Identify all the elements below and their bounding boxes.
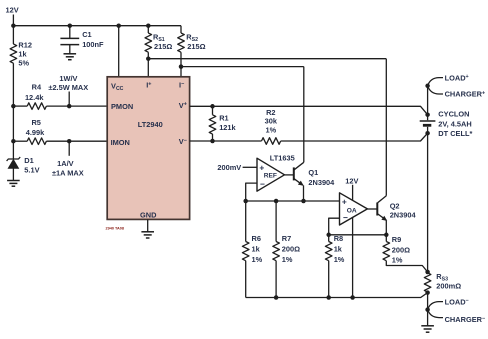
- svg-text:R9: R9: [392, 235, 401, 244]
- svg-text:LT1635: LT1635: [270, 153, 295, 162]
- svg-text:12.4k: 12.4k: [25, 93, 44, 102]
- wire vertical to Q2 collector: [385, 59, 387, 196]
- junction left rail / R4: [11, 104, 16, 109]
- svg-text:1%: 1%: [392, 255, 403, 264]
- label 2940 TA08: [106, 227, 125, 231]
- svg-text:12V: 12V: [345, 176, 358, 185]
- svg-text:121k: 121k: [219, 123, 236, 132]
- svg-text:±2.5W MAX: ±2.5W MAX: [48, 83, 88, 92]
- annotation 1W/V ±2.5W MAX with pointer: [48, 74, 88, 106]
- svg-text:2N3904: 2N3904: [390, 211, 417, 220]
- svg-text:4.99k: 4.99k: [26, 128, 45, 137]
- svg-text:LT2940: LT2940: [138, 120, 163, 129]
- junction battery plus: [425, 112, 430, 117]
- resistor RS3 200m ohm: [424, 272, 461, 293]
- svg-text:+: +: [342, 196, 347, 206]
- annotation 1A/V ±1A MAX with pointer: [52, 141, 84, 177]
- resistor R6 1k: [242, 201, 262, 298]
- junction RS2 bottom / I-: [179, 64, 184, 69]
- svg-text:5%: 5%: [18, 58, 29, 67]
- ground under GND pin: [141, 232, 154, 238]
- wire vertical to Q1 collector: [303, 67, 305, 163]
- svg-text:1W/V: 1W/V: [59, 74, 77, 83]
- svg-text:Q1: Q1: [308, 168, 318, 177]
- resistor R8 1k: [325, 234, 344, 298]
- svg-text:REF: REF: [264, 173, 277, 180]
- wire RS2 node to Q1 collector drop: [181, 66, 304, 68]
- wire OA- input to R8 node: [329, 218, 340, 235]
- resistor R7 200 ohm: [273, 201, 300, 298]
- node 12V supply label: [6, 5, 19, 14]
- svg-text:C1: C1: [82, 30, 91, 39]
- wire REF output to Q1 base: [285, 174, 294, 176]
- wire GND pin: [147, 219, 149, 231]
- ground bottom right: [421, 326, 434, 332]
- junction node A Q1 emitter: [301, 199, 306, 204]
- wire bottom bus: [246, 293, 428, 298]
- wire hooks to ground: [427, 310, 429, 326]
- junction R8 top: [326, 233, 331, 238]
- junction bus R7: [274, 295, 279, 300]
- svg-text:DT CELL*: DT CELL*: [438, 129, 472, 138]
- svg-text:−: −: [260, 179, 265, 189]
- svg-text:200Ω: 200Ω: [392, 245, 410, 254]
- wire V- pin segment to R2: [190, 140, 262, 142]
- wire battery minus down to RS3: [427, 133, 429, 272]
- svg-text:R4: R4: [32, 83, 42, 92]
- wire VCC pin from rail: [118, 26, 120, 77]
- wire OA negative supply to bottom bus: [352, 217, 354, 298]
- svg-text:1%: 1%: [265, 125, 276, 134]
- svg-text:OA: OA: [347, 208, 357, 215]
- wire hook junction to battery: [427, 86, 429, 115]
- svg-text:5.1V: 5.1V: [24, 165, 39, 174]
- wire left branch R5 to D1: [12, 141, 14, 159]
- op-amp U2 LT1635 REF: [257, 153, 295, 191]
- wire R12 to R4 node: [12, 63, 14, 106]
- wire 12V lead down to rail: [12, 15, 14, 26]
- svg-text:R7: R7: [282, 234, 291, 243]
- wire RS3 bottom to hooks: [427, 293, 429, 310]
- node 12V supply for OA: [345, 176, 358, 200]
- op-amp U3 OA: [340, 193, 368, 225]
- svg-text:2940 TA08: 2940 TA08: [106, 227, 125, 231]
- resistor R1 121k: [209, 106, 236, 141]
- junction RS1 bottom / I+: [146, 56, 151, 61]
- junction hooks bottom: [425, 307, 430, 312]
- junction node A REF/R6: [243, 199, 248, 204]
- svg-text:1k: 1k: [18, 49, 27, 58]
- junction bus R8: [326, 295, 331, 300]
- junction hooks top: [425, 84, 430, 89]
- svg-text:R5: R5: [31, 118, 40, 127]
- svg-text:±1A MAX: ±1A MAX: [52, 169, 84, 178]
- junction V- / R1: [210, 139, 215, 144]
- junction left rail / R5: [11, 139, 16, 144]
- resistor R12: [10, 41, 32, 68]
- ground under D1: [7, 181, 20, 187]
- svg-text:2N3904: 2N3904: [308, 178, 335, 187]
- svg-text:R6: R6: [252, 234, 261, 243]
- resistor R5 4.99k: [13, 118, 107, 145]
- wire Q1 emitter to node A: [303, 185, 305, 201]
- wire R8 node to R9 node: [329, 234, 387, 236]
- svg-text:215Ω: 215Ω: [187, 42, 205, 51]
- zener D1 5.1V: [7, 156, 40, 180]
- svg-text:1A/V: 1A/V: [57, 159, 74, 168]
- junction node A R7: [274, 199, 279, 204]
- svg-text:1k: 1k: [334, 245, 343, 254]
- transistor Q2 2N3904: [377, 196, 416, 221]
- svg-text:CHARGER+: CHARGER+: [445, 90, 486, 99]
- junction RS3 top: [425, 270, 430, 275]
- junction V+ / R1: [210, 104, 215, 109]
- battery CYCLON cell: [420, 110, 473, 139]
- svg-text:Q2: Q2: [390, 201, 400, 210]
- capacitor C1: [60, 26, 104, 54]
- svg-text:12V: 12V: [6, 5, 19, 14]
- source 200mV reference lead: [217, 163, 257, 172]
- junction RS3 bottom: [425, 290, 430, 295]
- svg-text:R1: R1: [219, 113, 228, 122]
- wire left branch R4 to R5: [12, 106, 14, 141]
- svg-text:R12: R12: [18, 41, 32, 50]
- svg-text:1k: 1k: [252, 245, 261, 254]
- junction rail-left: [11, 23, 16, 28]
- resistor R2 30k in series: [262, 108, 281, 144]
- transistor Q1 2N3904: [294, 162, 335, 187]
- wire REF- input to node A: [246, 183, 257, 199]
- svg-text:LOAD+: LOAD+: [445, 73, 469, 82]
- svg-text:CHARGER−: CHARGER−: [445, 315, 486, 324]
- svg-text:D1: D1: [24, 156, 33, 165]
- svg-text:1%: 1%: [282, 255, 293, 264]
- svg-text:R2: R2: [266, 108, 275, 117]
- junction R4 / PMON annotation: [67, 104, 72, 109]
- connector hooks LOAD- / CHARGER-: [428, 297, 486, 324]
- resistor R9 200 ohm: [383, 235, 428, 272]
- ground under C1: [64, 54, 77, 60]
- svg-text:30k: 30k: [265, 117, 278, 126]
- junction rail-C1: [68, 23, 73, 28]
- wire top 12V rail: [13, 25, 181, 27]
- svg-text:100nF: 100nF: [82, 40, 104, 49]
- junction rail-RS1: [146, 23, 151, 28]
- wire OA output to Q2 base: [367, 208, 377, 210]
- svg-text:LOAD−: LOAD−: [445, 297, 469, 306]
- svg-text:200mΩ: 200mΩ: [436, 282, 461, 291]
- resistor RS1 215 ohm: [145, 26, 172, 77]
- wire R2 to battery minus: [281, 133, 428, 141]
- svg-text:IMON: IMON: [111, 138, 130, 147]
- svg-text:215Ω: 215Ω: [154, 42, 172, 51]
- junction R5 / IMON annotation: [67, 139, 72, 144]
- junction battery minus: [425, 131, 430, 136]
- junction R9 top / Q2 emitter: [384, 233, 389, 238]
- svg-text:R8: R8: [334, 234, 343, 243]
- op-amp U1 LT2940 block: [107, 77, 189, 220]
- junction bus OA supply: [350, 295, 355, 300]
- wire RS1 node to Q2 collector drop: [148, 58, 386, 60]
- svg-text:GND: GND: [140, 210, 157, 219]
- svg-text:200Ω: 200Ω: [282, 245, 300, 254]
- svg-text:CYCLON: CYCLON: [438, 110, 469, 119]
- svg-text:+: +: [259, 162, 264, 172]
- svg-text:PMON: PMON: [111, 102, 133, 111]
- wire Q2 emitter to R9 node: [385, 221, 387, 235]
- wire node A bus: [246, 200, 340, 202]
- wire V+ pin to battery: [190, 106, 428, 114]
- wire left branch 12V to R12: [12, 26, 14, 44]
- svg-text:1%: 1%: [252, 255, 263, 264]
- resistor RS2 215 ohm: [178, 26, 206, 77]
- svg-text:1%: 1%: [334, 255, 345, 264]
- resistor R4 12.4k: [13, 83, 107, 110]
- svg-text:2V, 4.5AH: 2V, 4.5AH: [438, 120, 471, 129]
- connector hooks LOAD+ / CHARGER+: [428, 73, 486, 98]
- svg-text:200mV: 200mV: [217, 163, 241, 172]
- junction rail-VCC: [116, 23, 121, 28]
